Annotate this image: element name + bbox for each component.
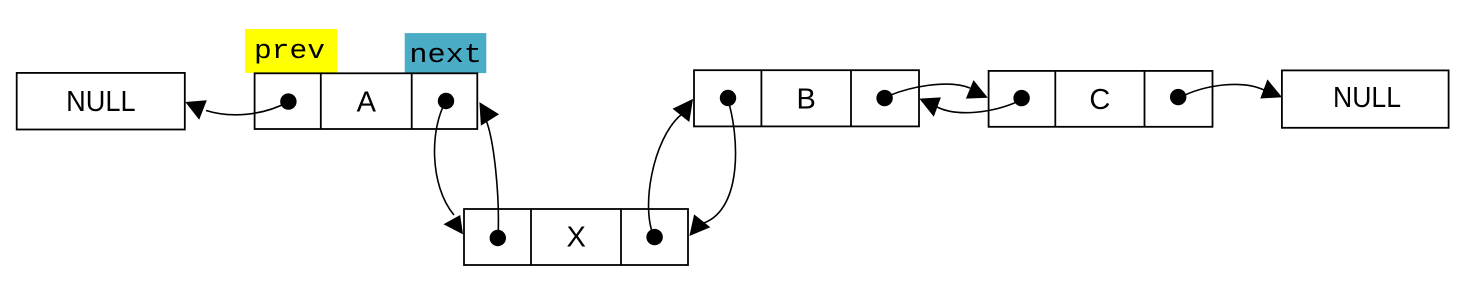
wire A.prev to NULL-left <box>206 102 288 115</box>
wire C.prev to B <box>937 101 1019 113</box>
node NULL-left box <box>17 73 185 130</box>
arrowhead at NULL-left <box>185 100 207 120</box>
arrowhead at B left <box>673 99 693 122</box>
node B prev dot <box>720 90 736 106</box>
node A next dot <box>438 93 454 109</box>
node C next dot <box>1170 89 1186 105</box>
wire X.prev to A <box>486 120 498 238</box>
arrowhead at A right <box>479 102 499 126</box>
svg-text:NULL: NULL <box>66 86 136 118</box>
wire B.next to C <box>886 84 970 97</box>
node C divider 1 <box>1054 71 1056 127</box>
svg-text:A: A <box>357 86 377 118</box>
svg-text:NULL: NULL <box>1333 82 1401 114</box>
arrowhead at X left <box>444 215 464 234</box>
node C box <box>989 71 1213 127</box>
node C prev dot <box>1013 90 1029 106</box>
node X divider 1 <box>530 209 532 265</box>
node B box <box>694 70 919 126</box>
svg-text:prev: prev <box>254 37 325 67</box>
node X box <box>464 209 688 265</box>
node NULL-right box <box>1282 70 1449 127</box>
label next (teal) <box>405 33 487 73</box>
node C divider 2 <box>1144 71 1146 127</box>
arrowhead at X right <box>689 214 710 236</box>
wire A.next to X <box>435 101 454 215</box>
node B next dot <box>876 90 892 106</box>
node A divider 2 <box>411 73 413 129</box>
node A box <box>255 73 478 129</box>
node X next dot <box>646 229 662 245</box>
label prev (yellow) <box>245 29 337 73</box>
arrowhead at C left <box>966 80 988 99</box>
svg-text:X: X <box>567 222 586 254</box>
node X divider 2 <box>620 209 622 265</box>
node X prev dot <box>490 230 506 246</box>
arrowhead at NULL-right <box>1260 79 1282 98</box>
node B divider 2 <box>850 70 852 126</box>
node B divider 1 <box>760 70 762 126</box>
wire X.next to B <box>649 114 682 238</box>
wire B.prev to X <box>704 100 736 223</box>
svg-text:B: B <box>797 84 816 116</box>
node A divider 1 <box>320 73 322 129</box>
wire C.next to NULL-right <box>1179 84 1264 98</box>
svg-text:C: C <box>1089 84 1110 116</box>
node A prev dot <box>280 93 296 109</box>
arrowhead at B right <box>919 97 941 116</box>
svg-text:next: next <box>409 41 482 71</box>
